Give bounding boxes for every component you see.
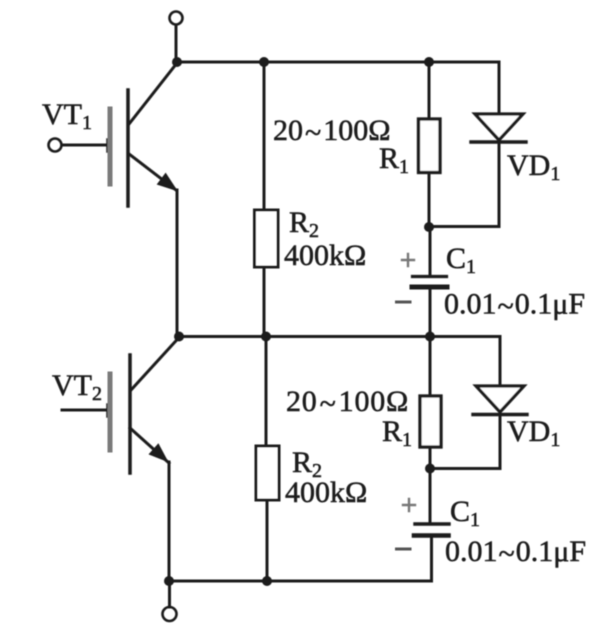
wire bottom rail [168, 580, 432, 583]
wire mid rail [178, 335, 500, 338]
svg-text:0.01~0.1μF: 0.01~0.1μF [444, 288, 585, 324]
svg-text:0.01~0.1μF: 0.01~0.1μF [445, 535, 586, 571]
capacitor C1 (bottom) [397, 469, 450, 582]
node mid R2 [261, 332, 271, 342]
node mid-left [174, 332, 184, 342]
node R1/C1 bottom [425, 464, 435, 474]
wire top terminal to rail [175, 25, 178, 62]
terminal bottom [163, 607, 177, 621]
wire VT2 emitter down [168, 462, 171, 581]
capacitor C1 (top) [397, 227, 448, 336]
svg-text:20~100Ω: 20~100Ω [273, 114, 391, 150]
svg-text:400kΩ: 400kΩ [285, 476, 367, 509]
node top R2 [259, 57, 269, 67]
node R1/C1 top [424, 222, 434, 232]
transistor VT1 [49, 63, 178, 206]
diode VD1 (bottom) [430, 337, 527, 469]
svg-text:400kΩ: 400kΩ [284, 239, 366, 272]
resistor R1 (bottom) [420, 337, 441, 469]
wire VT1 emitter down [176, 190, 179, 336]
node top-left [172, 57, 182, 67]
node mid R1 [425, 332, 435, 342]
node bottom R2 [262, 576, 272, 586]
node bottom-left [164, 576, 174, 586]
transistor VT2 [62, 338, 179, 474]
wire to bottom terminal [168, 581, 171, 607]
resistor R2 (top) [255, 62, 279, 336]
diode VD1 (top) [429, 62, 526, 227]
terminal top [170, 12, 183, 25]
wire top rail [177, 61, 499, 64]
node top R1 [424, 57, 434, 67]
resistor R2 (bottom) [256, 337, 279, 582]
resistor R1 (top) [419, 62, 441, 227]
